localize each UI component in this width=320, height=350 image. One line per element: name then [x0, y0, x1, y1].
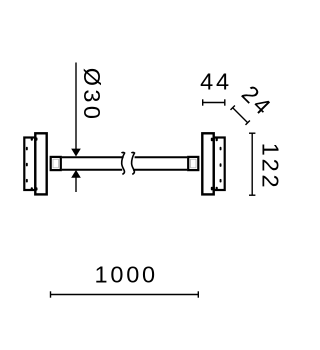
svg-text:44: 44	[200, 69, 232, 95]
tube right segment	[133, 157, 187, 169]
screw dashes on wall plate	[220, 147, 222, 183]
corner dots	[211, 138, 218, 191]
right mount bracket (mirror of left)	[202, 133, 224, 194]
front plate	[35, 133, 46, 194]
dimension 24 (diagonal)	[231, 106, 250, 125]
svg-text:1000: 1000	[94, 261, 157, 287]
dimension Ø30 leader lines and arrows	[75, 63, 77, 193]
corner dots	[31, 137, 38, 190]
left connector	[51, 157, 61, 170]
front plate	[202, 133, 213, 194]
svg-text:122: 122	[258, 143, 284, 191]
break symbol right curve	[132, 152, 135, 174]
wall plate	[24, 138, 35, 191]
svg-text:Ø30: Ø30	[79, 68, 105, 123]
wall plate	[214, 138, 225, 191]
arrowhead down to tube top	[71, 149, 81, 157]
tube left segment	[62, 157, 124, 169]
screw dashes on wall plate	[26, 147, 28, 183]
break symbol left curve	[122, 152, 125, 174]
right connector	[188, 157, 198, 170]
left mount bracket	[24, 133, 46, 194]
dimension 122	[249, 133, 255, 195]
dimension 1000	[51, 291, 199, 297]
arrowhead up to tube bottom	[71, 170, 81, 178]
dimension 44	[203, 99, 225, 105]
